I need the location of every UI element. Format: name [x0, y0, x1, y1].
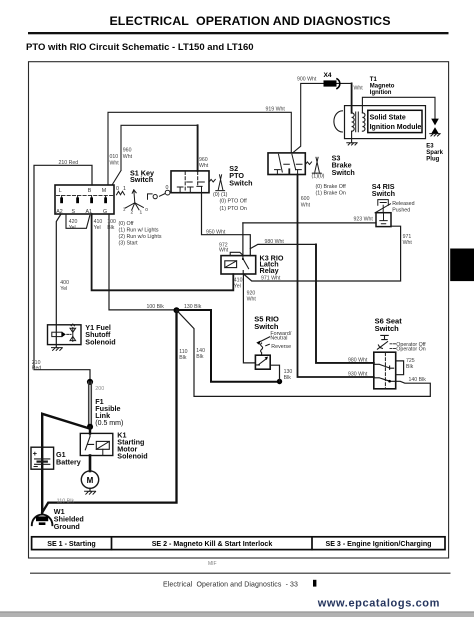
S1 pins — [62, 196, 106, 198]
svg-text:200: 200 — [95, 386, 104, 392]
S6 actuator symbol — [377, 335, 395, 349]
black page tab — [450, 249, 474, 282]
svg-text:Wht: Wht — [110, 160, 120, 166]
wire Y1 to ground — [55, 325, 57, 348]
svg-text:(0) Brake Off: (0) Brake Off — [316, 184, 347, 190]
svg-text:MIF: MIF — [208, 561, 217, 567]
svg-text:(0) (1): (0) (1) — [213, 192, 228, 198]
svg-text:M: M — [87, 476, 94, 485]
svg-text:130: 130 — [284, 369, 293, 375]
wire primary to ground — [351, 132, 353, 143]
K3 coil — [225, 261, 237, 268]
spark plug E3 symbol — [431, 119, 439, 134]
S3 switch contacts — [305, 157, 321, 173]
svg-text:T1: T1 — [370, 77, 378, 83]
S4 RIS actuator symbol — [375, 200, 391, 213]
battery positive cable (thick) — [42, 414, 88, 513]
connector S3 brake switch box — [268, 153, 305, 175]
svg-text:0: 0 — [145, 207, 148, 213]
svg-text:Battery: Battery — [56, 458, 81, 467]
wire X4 into primary (thick) — [351, 83, 353, 112]
wire 400 Yel (A2 to fuel solenoid) — [56, 214, 61, 325]
svg-text:Blk: Blk — [107, 225, 115, 231]
svg-text:110 Blk: 110 Blk — [57, 499, 75, 505]
svg-text:400: 400 — [60, 280, 69, 286]
wire S5 return — [270, 365, 279, 381]
svg-text:L: L — [59, 188, 62, 194]
connector S6 seat switch box — [374, 352, 396, 389]
ground (magneto) — [347, 143, 357, 145]
svg-text:Magneto: Magneto — [370, 84, 395, 90]
svg-text:A2: A2 — [56, 209, 63, 215]
svg-text:920: 920 — [247, 290, 256, 296]
svg-text:010: 010 — [110, 154, 119, 160]
svg-text:Wht: Wht — [247, 297, 257, 303]
svg-text:Released: Released — [392, 201, 414, 207]
svg-text:140: 140 — [196, 348, 205, 354]
svg-text:Wht: Wht — [301, 202, 311, 208]
bottom gray bar — [0, 612, 474, 617]
svg-text:B: B — [88, 188, 92, 194]
svg-text:SE 2 - Magneto Kill & Start In: SE 2 - Magneto Kill & Start Interlock — [152, 540, 273, 548]
svg-text:M: M — [102, 188, 106, 194]
svg-text:(0.5 mm): (0.5 mm) — [95, 420, 123, 427]
svg-text:Relay: Relay — [260, 266, 279, 275]
ground W1 shielded — [32, 515, 53, 526]
solenoid Y1 fuel shutoff box — [48, 325, 82, 345]
S2 switch contacts — [209, 175, 225, 191]
svg-text:Spark: Spark — [426, 150, 443, 156]
solid state ignition module U1 — [368, 110, 422, 132]
svg-text:Blk: Blk — [406, 364, 414, 370]
svg-text:Wht: Wht — [219, 248, 229, 254]
connector X4 — [324, 79, 340, 89]
magneto secondary coil — [362, 113, 365, 131]
svg-text:Yel: Yel — [69, 225, 76, 231]
svg-text:960: 960 — [199, 157, 208, 163]
svg-text:Solid State: Solid State — [370, 115, 406, 122]
relay K3 RIO latch box — [221, 256, 256, 274]
svg-text:www.epcatalogs.com: www.epcatalogs.com — [317, 597, 440, 609]
S6 contacts — [374, 364, 396, 381]
svg-text:1: 1 — [140, 210, 143, 216]
svg-text:923 Wht: 923 Wht — [354, 217, 374, 223]
svg-text:Yel: Yel — [234, 284, 241, 290]
magneto flywheel arc — [334, 111, 343, 132]
wire motor to ground — [89, 488, 91, 491]
Y1 plunger — [52, 332, 62, 336]
wire 100 Blk (G to ground junction) — [109, 214, 177, 310]
svg-text:(0) PTO Off: (0) PTO Off — [220, 199, 248, 205]
svg-text:Switch: Switch — [375, 324, 400, 333]
svg-text:ELECTRICAL OPERATION AND DIAG: ELECTRICAL OPERATION AND DIAGNOSTICS — [109, 14, 390, 28]
svg-text:950 Wht: 950 Wht — [206, 229, 226, 235]
wire 900 Wht (X4 to magneto / down to brake switch) — [293, 83, 352, 152]
motor cable (thick) — [89, 456, 92, 472]
svg-text:Switch: Switch — [254, 322, 279, 331]
svg-text:E3: E3 — [426, 144, 434, 150]
svg-text:PTO with RIO Circuit Schematic: PTO with RIO Circuit Schematic - LT150 a… — [26, 42, 254, 53]
svg-text:(3) Start: (3) Start — [119, 241, 139, 247]
wire 140 Blk branch (junction to seat switch return) — [177, 310, 431, 396]
svg-text:Wht: Wht — [354, 85, 364, 91]
svg-text:Wht: Wht — [123, 154, 133, 160]
K1 contact — [85, 433, 93, 449]
connector S4 box — [376, 213, 391, 227]
wire 920 Wht (relay to RIO switch) — [243, 274, 255, 363]
svg-text:−: − — [33, 462, 38, 472]
svg-text:(1) Run w/ Lights: (1) Run w/ Lights — [119, 228, 159, 234]
connector S1 key switch box — [55, 185, 114, 214]
svg-text:Solenoid: Solenoid — [117, 451, 147, 460]
svg-text:410: 410 — [234, 277, 243, 283]
wire 923 node vertical (to relay) — [242, 223, 244, 256]
svg-text:X4: X4 — [324, 72, 332, 79]
wire 420 Yel staple (S to A1) — [66, 214, 90, 228]
svg-text:Blk: Blk — [179, 355, 187, 361]
svg-text:Plug: Plug — [426, 157, 439, 163]
svg-text:971: 971 — [403, 234, 412, 240]
svg-text:Electrical Operation and Diag: Electrical Operation and Diagnostics - 3… — [163, 581, 298, 588]
svg-text:S: S — [72, 209, 76, 215]
svg-text:Yel: Yel — [60, 286, 67, 292]
svg-text:Ignition Module: Ignition Module — [370, 124, 422, 131]
svg-text:Ground: Ground — [54, 522, 80, 531]
ground bus 110 Blk (thick, to W1) — [42, 310, 176, 512]
svg-text:Link: Link — [95, 411, 110, 420]
magneto T1 outer box — [345, 106, 426, 139]
svg-text:410: 410 — [94, 219, 103, 225]
svg-text:Reverse: Reverse — [271, 344, 291, 350]
svg-text:Operator On: Operator On — [396, 347, 425, 353]
svg-text:100: 100 — [107, 219, 116, 225]
svg-text:Yel: Yel — [94, 225, 101, 231]
wire 130 Blk branch (junction to S5 return, thick) — [177, 310, 280, 382]
svg-text:(1)(0): (1)(0) — [312, 173, 325, 179]
svg-text:(1) PTO On: (1) PTO On — [220, 206, 247, 212]
svg-text:110: 110 — [179, 349, 187, 355]
svg-text:0: 0 — [166, 185, 169, 191]
connector S5 box — [255, 355, 270, 369]
schematic frame — [29, 62, 449, 558]
magneto primary coil — [352, 113, 355, 131]
wire 210 Red (battery feed to key switch B) — [34, 165, 92, 379]
svg-text:960: 960 — [123, 148, 132, 154]
svg-text:Switch: Switch — [130, 175, 153, 184]
svg-text:600: 600 — [301, 196, 310, 202]
key switch S1 rotary symbol — [117, 190, 171, 210]
wire 980 Wht (relay to seat switch) — [250, 244, 316, 248]
wire 950 Wht (S2 to relay) — [202, 193, 251, 256]
SE section bar — [32, 537, 445, 550]
svg-text:SE 3 - Engine Ignition/Chargin: SE 3 - Engine Ignition/Charging — [325, 540, 431, 548]
svg-text:+: + — [33, 449, 38, 458]
svg-text:1: 1 — [123, 186, 126, 192]
wire 960 Wht bus (key switch to PTO switch) — [112, 125, 197, 185]
wire 923 Wht (to RIS switch) — [243, 222, 376, 224]
ground junction node — [174, 307, 180, 313]
svg-text:(0) Off: (0) Off — [119, 221, 134, 227]
solenoid K1 box — [80, 433, 113, 455]
svg-text:Switch: Switch — [372, 189, 395, 198]
svg-text:930 Wht: 930 Wht — [348, 371, 368, 377]
K1 coil — [96, 441, 109, 449]
svg-text:Blk: Blk — [284, 375, 292, 381]
svg-text:Red: Red — [32, 365, 42, 371]
svg-text:(2) Run w/o Lights: (2) Run w/o Lights — [119, 234, 162, 240]
wire secondary to spark plug — [362, 97, 435, 118]
svg-text:Neutral: Neutral — [270, 336, 287, 342]
ground (Y1) — [52, 348, 63, 351]
svg-text:1: 1 — [123, 207, 126, 213]
wire 960 Wht drop into S2 (thick) — [197, 125, 199, 171]
S5 actuator symbol — [259, 337, 270, 355]
footer rule — [30, 573, 451, 574]
svg-text:Blk: Blk — [196, 354, 204, 360]
K3 contact — [243, 256, 249, 274]
svg-text:100 Blk: 100 Blk — [147, 304, 165, 310]
ground (motor) — [85, 491, 96, 494]
Y1 valve — [70, 324, 76, 341]
wire 600 Wht (brake sw to seat sw, thick) — [298, 175, 374, 378]
svg-text:Wht: Wht — [403, 240, 413, 246]
svg-text:919 Wht: 919 Wht — [266, 107, 286, 113]
connector S2 PTO switch box — [171, 171, 209, 193]
svg-text:Solenoid: Solenoid — [85, 337, 115, 346]
wire 410 Yel (A1 to relay, thick) — [92, 214, 234, 290]
svg-text:130 Blk: 130 Blk — [184, 304, 202, 310]
wire 919/010 Wht (key switch M to brake switch) — [108, 112, 291, 185]
wire 972 Wht jog — [230, 252, 243, 255]
battery G1 box — [31, 447, 54, 469]
svg-text:Wht: Wht — [199, 163, 209, 169]
svg-text:420: 420 — [69, 219, 78, 225]
svg-text:Ignition: Ignition — [370, 90, 392, 96]
svg-text:971 Wht: 971 Wht — [261, 276, 281, 282]
title rule — [28, 32, 449, 34]
svg-text:210 Red: 210 Red — [59, 160, 79, 166]
svg-text:(1) Brake On: (1) Brake On — [316, 190, 346, 196]
svg-text:140 Blk: 140 Blk — [409, 377, 427, 383]
svg-text:Switch: Switch — [332, 168, 355, 177]
wire F1 into K1 — [89, 427, 91, 433]
svg-text:980 Wht: 980 Wht — [348, 357, 368, 363]
svg-text:2: 2 — [131, 210, 134, 216]
svg-text:Pushed: Pushed — [392, 207, 410, 213]
magneto core — [356, 112, 359, 132]
svg-text:725: 725 — [406, 358, 415, 364]
svg-text:SE 1 - Starting: SE 1 - Starting — [47, 540, 95, 548]
node battery feed junction — [87, 379, 93, 385]
fusible link F1 cable — [89, 382, 92, 427]
motor M1 — [81, 471, 98, 488]
svg-text:G: G — [103, 209, 107, 215]
svg-text:Switch: Switch — [229, 178, 252, 187]
svg-text:980 Wht: 980 Wht — [265, 239, 285, 245]
wire 725 Blk staple — [396, 361, 404, 375]
wire 971 Wht (RIS to relay NC) — [243, 226, 400, 281]
svg-text:0: 0 — [116, 186, 119, 192]
svg-text:900 Wht: 900 Wht — [297, 77, 317, 83]
